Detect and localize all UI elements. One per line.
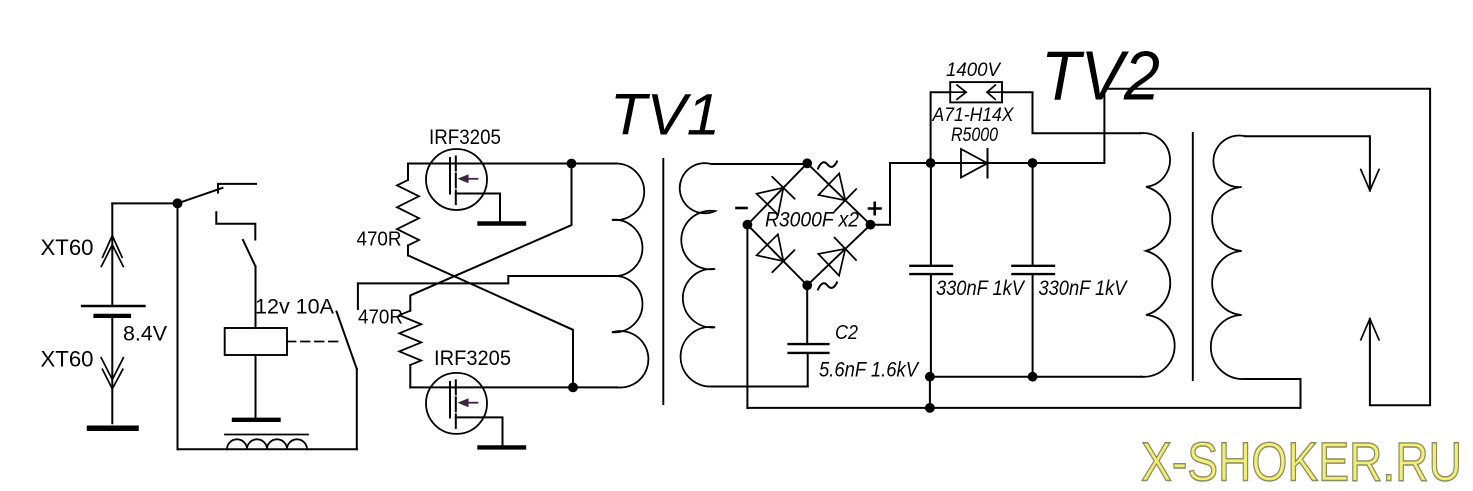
- resistor R1 470R top: [407, 164, 409, 181]
- AC tilde top: [818, 162, 837, 169]
- diode VD2 cathode bar: [987, 149, 989, 178]
- transformer TV1 core: [662, 159, 664, 404]
- capacitor C3 lead bottom: [930, 274, 932, 377]
- svg-text:IRF3205: IRF3205: [434, 346, 511, 370]
- battery plate short: [96, 314, 130, 318]
- minus label mark: [737, 207, 747, 210]
- capacitor C2 lead bottom: [807, 353, 809, 387]
- AC tilde bottom: [818, 283, 837, 290]
- battery B1: [82, 203, 178, 428]
- diode bridge top-right: [818, 174, 845, 201]
- wire battery negative lead: [111, 316, 113, 423]
- svg-text:8.4V: 8.4V: [123, 321, 168, 345]
- wire cross-coupling diagonal B: [408, 255, 573, 387]
- wire bridge minus down: [746, 225, 748, 408]
- spark gap FV1 1400V box: [950, 82, 1002, 102]
- switch S1 blade: [178, 188, 223, 204]
- wire cross-coupling diagonal A: [410, 164, 571, 311]
- wire bridge plus up to rail: [871, 163, 931, 225]
- wire top drain rail: [408, 163, 617, 165]
- node dot bridge top: [802, 158, 812, 168]
- capacitor C3 lead top: [930, 163, 932, 266]
- node dot top drain: [567, 159, 577, 169]
- svg-text:330nF 1kV: 330nF 1kV: [1039, 276, 1129, 300]
- output electrode arrow up: [1361, 319, 1379, 340]
- wire rail to HV riser: [1033, 89, 1105, 163]
- node junction dot battery/switch: [173, 198, 183, 208]
- node dot bottom drain: [568, 383, 578, 393]
- inductor core bar: [225, 434, 308, 436]
- node dot cap C4 bottom: [1028, 372, 1038, 382]
- XT60 top connector arrow: [103, 236, 123, 258]
- switch S1 upper contact: [218, 184, 256, 193]
- transistor Q1 IRF3205 top: [426, 149, 524, 224]
- relay actuation dashed link: [287, 341, 341, 343]
- wire blade to relay coil: [255, 267, 257, 329]
- diode VD2 rail: [931, 162, 1033, 164]
- svg-text:1400V: 1400V: [946, 60, 1002, 81]
- node dot ground rail: [925, 403, 935, 413]
- ground relay coil: [234, 418, 279, 422]
- wire gate resistors feed / center tap horizontal: [358, 276, 614, 283]
- wire TV1 secondary bottom to C2: [712, 386, 808, 388]
- svg-text:TV2: TV2: [1041, 37, 1160, 115]
- svg-text:470R: 470R: [358, 306, 403, 329]
- transformer TV2 secondary winding: [1211, 136, 1246, 379]
- spark gap electrode arrows: [950, 85, 966, 99]
- output electrode arrow down: [1361, 170, 1379, 191]
- diode bridge left-bottom: [757, 234, 784, 261]
- svg-text:XT60: XT60: [41, 346, 94, 371]
- node dot cap C3 bottom: [925, 372, 935, 382]
- relay contact blade: [337, 312, 357, 370]
- plus label mark: [869, 203, 881, 214]
- diode bridge bottom-right: [818, 249, 845, 276]
- svg-text:5.6nF 1.6kV: 5.6nF 1.6kV: [819, 358, 920, 382]
- svg-text:IRF3205: IRF3205: [429, 125, 501, 149]
- capacitor C4 lead top: [1032, 163, 1034, 266]
- caps bottom rail to TV2 primary bottom: [930, 376, 1142, 378]
- ground battery: [90, 426, 137, 432]
- svg-text:R5000: R5000: [951, 125, 998, 146]
- switch S1 lower contact: [216, 212, 255, 239]
- wire battery positive lead: [111, 203, 113, 306]
- svg-text:TV1: TV1: [610, 83, 720, 148]
- node dot bridge left: [743, 220, 753, 230]
- wire TV1 secondary top to bridge: [712, 162, 808, 165]
- svg-text:R3000F x2: R3000F x2: [765, 207, 859, 231]
- HV top wire to output electrode: [1104, 89, 1430, 406]
- svg-text:C2: C2: [835, 321, 859, 344]
- transformer TV2 core: [1192, 133, 1194, 380]
- node dot diode anode: [926, 158, 936, 168]
- svg-text:12v 10A: 12v 10A: [255, 294, 335, 318]
- wire bottom drain rail: [410, 386, 617, 388]
- capacitor C2 lead top: [806, 285, 808, 344]
- transformer TV1 primary winding: [612, 164, 649, 388]
- inductor L1 choke: [227, 439, 307, 449]
- wire relay contact to bottom rail: [356, 369, 358, 449]
- capacitor C4 lead bottom: [1032, 274, 1034, 377]
- svg-text:470R: 470R: [357, 228, 402, 251]
- wire battery top to junction: [112, 202, 177, 204]
- transformer TV2 primary winding: [1140, 133, 1174, 377]
- capacitor C4 plates 330nF: [1012, 265, 1054, 267]
- battery plate long: [82, 305, 145, 307]
- transformer TV1 secondary winding: [680, 163, 715, 386]
- resistor R2 470R bottom: [399, 311, 421, 365]
- bottom rail wire: [178, 448, 357, 450]
- relay contact fixed stub: [357, 283, 359, 309]
- spark gap right wire to TV2 primary: [1002, 92, 1140, 133]
- node dot diode cathode: [1028, 158, 1038, 168]
- diode VD2 A71-H14X triangle: [961, 149, 988, 178]
- wire relay coil to ground: [255, 355, 257, 418]
- switch S1 second blade: [243, 240, 256, 267]
- diode bridge left-top: [757, 188, 784, 215]
- wire junction down to bottom rail: [177, 203, 179, 449]
- bottom ground rail: [747, 379, 1300, 408]
- spark gap riser left: [931, 92, 951, 163]
- svg-text:XT60: XT60: [41, 235, 94, 260]
- capacitor C3 plates 330nF: [910, 265, 952, 267]
- svg-text:X-SHOKER.RU: X-SHOKER.RU: [1141, 431, 1462, 491]
- svg-text:A71-H14X: A71-H14X: [932, 105, 1015, 126]
- bridge rectifier VD1 R3000F x2: [747, 163, 870, 285]
- wire caps rail down to ground rail: [929, 377, 931, 408]
- svg-text:330nF 1kV: 330nF 1kV: [936, 276, 1026, 300]
- relay coil K1 12v 10A: [225, 328, 287, 355]
- transistor Q2 IRF3205 bottom: [426, 373, 524, 448]
- node dot bridge right: [866, 220, 876, 230]
- wire TV2 secondary top to output electrode: [1246, 136, 1370, 190]
- capacitor C2 plates: [789, 343, 829, 345]
- XT60 bottom connector arrow: [101, 358, 123, 380]
- node dot bridge bottom: [802, 280, 812, 290]
